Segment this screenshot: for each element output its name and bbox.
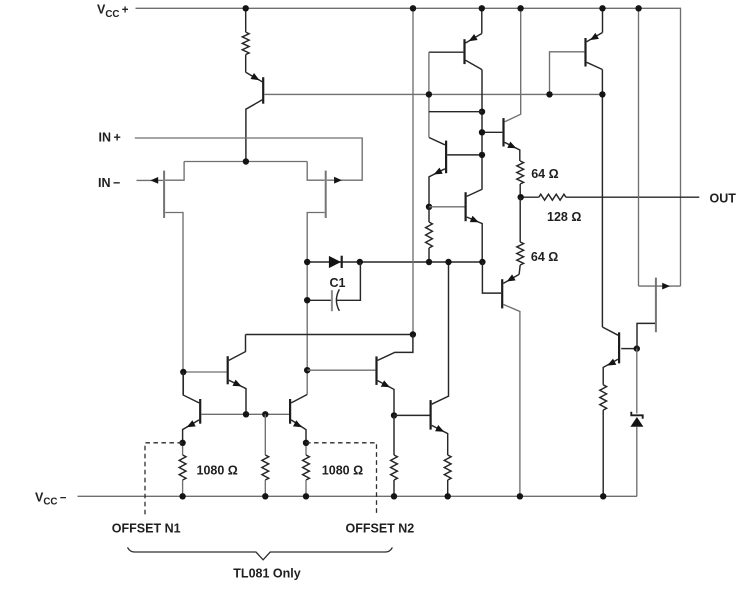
transistor Q12 PNP top right [602, 8, 604, 32]
node rail-413 [410, 5, 416, 11]
wire zener branch upper [636, 349, 638, 414]
node Q3 base-482 [479, 152, 485, 158]
wire IN+ line to J2 gate [135, 138, 362, 180]
jfet J1 drain wire down left column [165, 213, 183, 396]
node R2 top [179, 440, 185, 446]
node R3 top junction [262, 411, 268, 417]
wire OUT line right [566, 196, 699, 198]
wire y334 line [246, 334, 413, 336]
node OUT junction [518, 194, 524, 200]
diode D1 cathode bar [341, 256, 343, 268]
svg-text:VCC +: VCC + [97, 3, 129, 20]
node Q4e-262 [479, 259, 485, 265]
node rail-Q12e [599, 5, 605, 11]
jfet J2 source wire [307, 162, 324, 181]
wire base net Q1-Q2-Q12 at y=94.4 [264, 93, 602, 95]
svg-text:VCC −: VCC − [35, 490, 67, 507]
node rail-Q2e [479, 5, 485, 11]
transistor Q7 PNP mirror right [289, 399, 291, 424]
jfet J3 gate wire [639, 285, 681, 287]
node R7-262 [426, 259, 432, 265]
node J2drain-diode [304, 259, 310, 265]
node rail-265.3 [262, 493, 268, 499]
wire node line y=262 [307, 261, 482, 263]
resistor R8 64ohm [517, 161, 524, 184]
node Q10 base [479, 129, 485, 135]
wire horiz y=111.7 [429, 111, 482, 113]
capacitor C1 flat plate [331, 290, 333, 311]
wire J3 source tap [637, 323, 655, 348]
node Q2 base junction [426, 91, 432, 97]
node Q9c-262 [445, 259, 451, 265]
node J2 drain-Q8 base [304, 367, 310, 373]
transistor Q8 NPN [375, 356, 377, 385]
node y334-413 [410, 331, 416, 337]
wire OUT line left [521, 196, 539, 198]
svg-text:128 Ω: 128 Ω [547, 210, 581, 224]
resistor R6 [444, 455, 451, 480]
node rail-638 [635, 5, 641, 11]
wire Q12 collector long vertical [601, 70, 603, 328]
jfet J2 gate arrow [334, 177, 342, 184]
capacitor C1 right wire up to diode line [336, 262, 360, 300]
capacitor C1 curved plate [336, 289, 339, 311]
node rail-Q10c [517, 5, 523, 11]
node Q5e junction [243, 411, 249, 417]
svg-text:C1: C1 [330, 276, 346, 290]
svg-text:64 Ω: 64 Ω [531, 167, 558, 181]
jfet J2 drain wire down right column [307, 213, 324, 395]
zener Z1 cathode bar [631, 412, 642, 419]
wire base line Q6-Q7 [201, 413, 289, 415]
node Q2c-429 [479, 109, 485, 115]
transistor Q9 NPN [430, 400, 432, 430]
resistor R3 middle [264, 414, 266, 455]
svg-text:64 Ω: 64 Ω [531, 250, 558, 264]
transistor Q4 NPN second stage [429, 206, 465, 208]
transistor Q13 NPN protection [602, 327, 618, 335]
wire tail bus [184, 161, 307, 163]
node diode cathode [357, 259, 363, 265]
resistor R4 1080ohm [305, 443, 307, 455]
transistor Q10 NPN output upper [482, 131, 502, 133]
jfet J1 gate wire IN- [137, 179, 164, 181]
wire Q9 base [394, 414, 430, 416]
svg-text:1080 Ω: 1080 Ω [322, 463, 363, 477]
jfet J3 gate arrow [662, 283, 670, 290]
resistor R10 64ohm lower [519, 197, 521, 242]
wire black vertical x=482 chain [481, 70, 483, 190]
wire VCC- bottom rail [78, 495, 638, 497]
jfet J2 bar [325, 171, 327, 218]
resistor R9 128ohm [539, 194, 566, 200]
svg-text:1080 Ω: 1080 Ω [197, 463, 238, 477]
svg-text:OFFSET N2: OFFSET N2 [346, 521, 415, 535]
node C1 left [304, 297, 310, 303]
node rail-R1 [243, 5, 249, 11]
node Q13 base [634, 345, 640, 351]
resistor R11 [600, 385, 607, 410]
node rail-447.7 [445, 493, 451, 499]
node Q12 base junction [546, 91, 552, 97]
transistor Q11 PNP output lower [503, 274, 519, 283]
svg-text:IN −: IN − [98, 176, 120, 190]
node rail-182.6 [179, 493, 185, 499]
dashed offset N2 box [306, 443, 377, 515]
diode D1 triangle [329, 256, 341, 268]
node rail-603.2 [600, 493, 606, 499]
node Q5 base junction [180, 369, 186, 375]
jfet J1 bar [163, 171, 165, 218]
transistor Q2 PNP top middle [481, 8, 483, 33]
resistor R7 [426, 222, 433, 248]
dashed offset N1 box [145, 443, 183, 515]
resistor R1 bias [245, 8, 247, 32]
wire 413 to Q8 collector [378, 335, 413, 361]
node Q12c-94.4 [599, 91, 605, 97]
resistor R2 1080ohm [182, 443, 184, 455]
wire zener branch lower to rail corner [636, 427, 638, 497]
jfet J1 source wire [165, 162, 184, 181]
node tail junction [243, 158, 249, 164]
node Q8e junction [391, 412, 397, 418]
jfet J3 protection bar [655, 278, 657, 333]
svg-text:TL081 Only: TL081 Only [233, 567, 300, 581]
wire Q8 base line [307, 369, 375, 371]
wire VCC+ top rail with right corner down to node G [136, 8, 681, 286]
transistor Q5 NPN [183, 371, 226, 373]
svg-text:IN +: IN + [99, 131, 121, 145]
resistor R5 [393, 415, 395, 455]
svg-text:OFFSET N1: OFFSET N1 [112, 521, 181, 535]
wire long vertical from rail to y334 node [412, 8, 414, 334]
jfet J1 gate arrow [150, 177, 158, 184]
zener Z1 triangle [630, 417, 643, 427]
node rail-306 [303, 493, 309, 499]
node rail-394 [391, 493, 397, 499]
capacitor C1 left wire [307, 299, 331, 301]
transistor Q6 PNP mirror left [199, 399, 201, 424]
svg-text:OUT: OUT [710, 191, 737, 205]
node Q3e-R7 [426, 204, 432, 210]
node rail-519.9 [517, 493, 523, 499]
node R4 top [303, 440, 309, 446]
wire J3 left vertical to rail [638, 8, 640, 286]
transistor Q3 NPN mirror [429, 138, 445, 145]
transistor Q1 PNP current source [245, 55, 247, 73]
brace TL081 only [128, 547, 393, 559]
